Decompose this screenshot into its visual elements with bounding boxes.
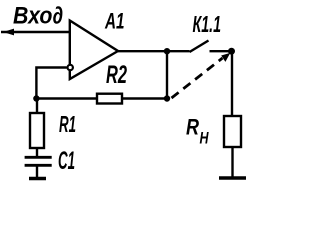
svg-text:R1: R1 (59, 111, 76, 137)
resistor R1 (30, 113, 44, 148)
resistor R2 (97, 94, 122, 104)
wire feedback vertical (166, 51, 168, 98)
svg-text:R: R (186, 115, 199, 140)
inversion bubble (68, 65, 73, 70)
wire output (118, 50, 190, 52)
ground bar left (29, 177, 46, 181)
op-amp A1 (70, 21, 118, 80)
wire C1 bottom (36, 166, 38, 177)
wire Rn bottom (231, 147, 233, 177)
node junction left (33, 95, 39, 101)
wire feedback bottom (36, 97, 167, 99)
capacitor C1 (25, 157, 52, 165)
wire switch right lead (210, 50, 232, 52)
resistor Rn (224, 116, 241, 147)
wire R1 to C1 (36, 148, 38, 156)
svg-text:R2: R2 (106, 61, 127, 89)
svg-text:С1: С1 (58, 147, 75, 175)
wire inverting input (36, 68, 66, 99)
svg-text:Вхо∂: Вхо∂ (13, 3, 63, 30)
svg-text:К1.1: К1.1 (193, 11, 222, 37)
node junction output (164, 48, 170, 54)
svg-text:А1: А1 (104, 9, 124, 34)
wire R1 top (36, 99, 38, 114)
switch K1.1 mechanical link dashed arrow (172, 53, 231, 98)
ground bar right (219, 176, 246, 180)
svg-text:Н: Н (200, 129, 210, 148)
wire input with arrow (1, 29, 70, 36)
wire to Rn (231, 51, 233, 116)
node junction feedback (164, 95, 170, 101)
node switch terminal (228, 48, 235, 55)
switch K1.1 blade (190, 41, 209, 53)
